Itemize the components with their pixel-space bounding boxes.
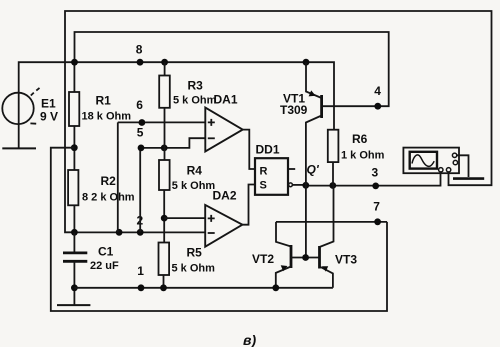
wire: node 2 line to DA2 inverting input [74,231,205,233]
wire: VT2/VT3 collector rail (pin 7 line) [276,221,387,223]
svg-text:DA1: DA1 [214,93,238,107]
svg-text:DD1: DD1 [256,143,280,157]
node: R1-R2 junction dot [71,144,78,151]
transistor VT1 base bar [320,95,323,118]
wire: VT2-VT3 base link [291,257,320,259]
svg-text:R2: R2 [101,174,117,188]
node: R4-R5 junction dot feeding DA2 plus [161,215,168,222]
node: R2 bottom / C1 top dot [71,229,78,236]
wire: R1-R2 junction left and down to bottom rail, right to pin 7 [51,148,387,311]
wire: VT1 collector down through Q' to VT2/VT3 bases [306,116,322,258]
svg-text:VT2: VT2 [252,252,274,266]
svg-text:T309: T309 [280,103,308,117]
wire: R4 bottom to R5 top [163,190,165,243]
node: R3 top dot on rail [161,59,168,66]
resistor R1 [69,92,79,126]
wire: DD1 output to Q' node [292,184,305,186]
oscilloscope body [403,148,459,174]
DA1 plus symbol [208,119,215,126]
node: pin 2-6 tie junction dot [116,229,123,236]
node: pin 1 marker dot [138,284,145,291]
svg-text:S: S [260,180,267,192]
wire: VT3 collector up to R6 bottom node [320,186,334,248]
node: R3-R4 junction dot on node 5 line [161,145,168,152]
svg-text:4: 4 [374,84,381,98]
wire: DA2 output to DD1 S input [242,185,255,225]
wire: R1 top lead from rail [73,62,75,92]
DA1 minus symbol [208,137,215,139]
wire: pin 4 reset loop from rail corner across second top line down to VT1 base [75,32,389,106]
oscilloscope screen [410,152,437,169]
node: common base dot [302,254,309,261]
resistor R4 [159,160,170,190]
wire: R3 top lead [164,62,166,75]
oscilloscope terminal C [439,168,443,172]
node: pin 8 marker dot on rail [137,59,144,66]
wire: VT2 emitter down to node 1 wire [276,267,291,288]
svg-text:R4: R4 [187,164,203,178]
svg-text:VT3: VT3 [335,253,357,267]
svg-text:1: 1 [137,264,144,278]
DA2 plus symbol [208,215,215,222]
node: R5 bottom dot [160,284,167,291]
svg-text:R1: R1 [96,94,112,108]
DA2 minus symbol [208,232,215,234]
svg-text:5 k Ohm: 5 k Ohm [173,95,217,107]
resistor R5 [159,243,170,276]
svg-text:E1: E1 [41,97,56,111]
E1 polarity minus tick [30,122,36,124]
wire: scope ground terminal to earth bar [457,155,469,177]
svg-text:R3: R3 [188,79,204,93]
transistor VT3 base bar [318,246,321,269]
svg-text:9 V: 9 V [40,110,58,124]
oscilloscope terminal D [446,168,450,172]
svg-text:7: 7 [373,200,380,214]
wire: R6 bottom lead [332,162,334,185]
wire: R1 bottom to R2 top [73,126,75,170]
svg-text:C1: C1 [98,245,114,259]
node: pin 7 marker dot [374,218,381,225]
svg-text:8: 8 [136,43,143,57]
svg-text:6: 6 [136,98,143,112]
node: pin 2 marker dot [137,229,144,236]
wire: R3 bottom to R4 top [164,108,166,160]
DD1 R output stub [288,168,295,170]
transistor VT2 base bar [290,245,293,268]
wire: pin 5 to pin 2 tie vertical [139,148,141,232]
resistor R2 [68,170,78,205]
wire: node 2/6 up left side, across top, down right side to oscilloscope input Y2 [65,11,492,232]
wire: +9V rail from E1 top right to R6 top [19,62,334,148]
wire: capacitor C1 top lead [73,232,75,252]
svg-text:DA2: DA2 [213,189,237,203]
ground bar below E1 [2,147,36,149]
capacitor C1 plates [63,253,87,261]
wire: VT1 emitter from rail [306,62,322,98]
wire: pin 6-2 tie vertical [117,122,119,232]
wire: VT3 emitter down to node 1 wire end [320,267,333,288]
svg-text:5 k Ohm: 5 k Ohm [172,263,216,275]
wire: R5 bottom lead [163,275,165,288]
resistor R3 [159,76,170,108]
node: VT1 emitter dot on rail [303,59,310,66]
oscilloscope trace [412,155,434,166]
wire: node 3 line from Q' to oscilloscope input Y1 [306,171,441,185]
wire: node 5 line with step to DA1 minus input [141,138,205,148]
svg-text:8 2 k Ohm: 8 2 k Ohm [82,192,135,204]
op-amp DA2 triangle [205,205,242,247]
flip-flop DD1 box [255,158,288,195]
wire: VT2 collector up to rail [276,222,291,247]
E1 polarity plus ticks [31,88,40,96]
oscilloscope terminal A [452,153,456,157]
svg-text:1 k Ohm: 1 k Ohm [341,150,385,162]
svg-text:R6: R6 [352,132,368,146]
svg-text:5 k Ohm: 5 k Ohm [172,180,216,192]
VT2 emitter arrow [281,265,288,271]
svg-text:5: 5 [137,126,144,140]
node: R6 bottom dot [329,182,336,189]
svg-text:3: 3 [372,166,379,180]
node: pin 6 marker dot [139,119,146,126]
wire: node 6 line to DA1 plus input [118,121,205,123]
wire: R2 bottom lead [73,205,75,232]
oscilloscope terminal B [453,160,457,164]
svg-text:22 uF: 22 uF [90,260,119,272]
node: Q' dot [302,182,309,189]
ground bar below C1 [57,304,90,306]
svg-text:в): в) [243,332,256,347]
DD1 inverted output bubble [289,183,293,187]
wire: C1 bottom lead to node 1 wire and ground [73,261,75,304]
voltage source E1 circle [2,93,33,124]
node: pin 3 marker dot [372,183,379,190]
node: pin 4 marker dot [374,103,381,110]
node: VT2 emitter dot [272,284,279,291]
op-amp DA1 triangle [205,108,242,152]
VT3 emitter arrow [322,266,328,271]
svg-text:R5: R5 [187,246,203,260]
scope earth bar [453,177,484,180]
wire: DA1 output to DD1 R input [243,130,255,169]
svg-text:18 k Ohm: 18 k Ohm [82,111,132,123]
wire: DA2 plus input line [164,217,205,219]
node: C1 bottom junction dot [71,284,78,291]
svg-text:R: R [260,166,268,178]
wire: node 1 line to VT3 emitter [74,287,333,289]
resistor R6 [328,130,339,162]
node: rail junction at H2 corner dot [71,59,78,66]
VT1 emitter arrow [309,90,316,96]
node: pin 5 marker dot [138,145,145,152]
svg-text:Q': Q' [307,163,320,177]
